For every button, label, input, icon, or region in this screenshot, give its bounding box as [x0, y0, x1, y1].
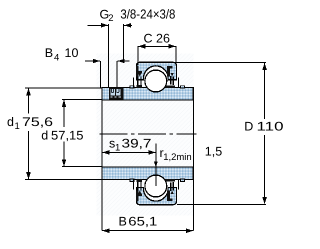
label D 110 — [244, 120, 283, 134]
seal left — [134, 66, 142, 88]
svg-text:65,1: 65,1 — [128, 214, 157, 228]
label B 65,1 — [119, 214, 158, 228]
dimension d1: vertical line with arrows — [26, 88, 31, 179]
svg-text:57,15: 57,15 — [51, 128, 84, 142]
dimension D: extension line bottom — [177, 203, 266, 205]
r leader centre line — [155, 144, 157, 187]
dimension G2: right arrow — [124, 23, 132, 28]
label B4 10 — [45, 46, 79, 63]
seal right — [166, 66, 179, 88]
dimension G2: extension line right — [123, 24, 125, 63]
svg-text:39,7: 39,7 — [122, 136, 152, 150]
svg-text:D: D — [244, 120, 253, 134]
dimension B: line with arrows — [102, 228, 193, 233]
dimension G2: left arrow — [88, 23, 109, 28]
svg-text:1,5: 1,5 — [205, 145, 222, 159]
dimension D: extension line top — [167, 62, 266, 64]
outer ring — [137, 62, 177, 79]
centerline (bearing axis, dash-dot) — [99, 133, 196, 135]
dimension d: vertical line with arrows — [62, 100, 67, 166]
dimension C: extension line right — [175, 46, 177, 62]
dimension d: extension line bottom — [62, 166, 102, 168]
r arrow (down, at bottom inner ring top edge) — [154, 162, 158, 168]
label s1 39,7 — [109, 136, 152, 153]
bearing cross-section top half — [102, 62, 193, 100]
dimension d: extension line top — [62, 99, 102, 101]
bore line right (inner ring right face / B extension) — [192, 88, 194, 231]
svg-text:B: B — [45, 46, 53, 60]
dimension C: extension line left — [137, 46, 139, 65]
dimension B4: extension line right (screw centre) — [116, 61, 118, 88]
dimension s1: line with arrows — [102, 150, 155, 155]
svg-text:3/8-24×3/8: 3/8-24×3/8 — [120, 6, 175, 21]
dimension B4: right arrow — [118, 59, 130, 64]
svg-text:B: B — [119, 214, 127, 228]
svg-text:10: 10 — [65, 46, 79, 60]
dimension B4: extension line left — [99, 61, 101, 88]
dimension C: line with arrows — [138, 44, 175, 49]
ball — [145, 70, 167, 92]
dimension d1: extension line top — [25, 87, 102, 89]
label d 57,15 — [41, 128, 83, 142]
faint hatched zone around bearing — [97, 54, 194, 216]
svg-text:4: 4 — [54, 52, 59, 63]
svg-text:75,6: 75,6 — [22, 115, 53, 129]
label d1 75,6 — [7, 115, 53, 132]
flinger seat step left — [130, 86, 134, 88]
svg-text:d: d — [7, 115, 14, 129]
svg-text:C 26: C 26 — [144, 32, 170, 46]
dimension D: vertical line with arrows — [262, 63, 267, 204]
flinger seat step right — [180, 86, 184, 88]
svg-text:1: 1 — [115, 142, 120, 153]
dimension B4: left arrow — [85, 59, 100, 64]
label r 1,2min — [160, 146, 192, 163]
dimension G2: extension line left — [108, 24, 110, 88]
svg-text:1: 1 — [15, 121, 20, 132]
svg-text:2: 2 — [108, 13, 113, 24]
set screw G2 in top inner ring — [109, 87, 124, 99]
svg-text:d: d — [41, 128, 48, 142]
label G2 3/8-24x3/8 — [100, 6, 176, 24]
svg-text:1,2min: 1,2min — [163, 152, 192, 163]
dimension d1: extension line bottom — [25, 179, 102, 181]
bearing cross-section bottom half (mirrored) — [102, 167, 193, 205]
bore line left (inner ring left face / B extension) — [101, 88, 103, 231]
inner ring — [102, 85, 193, 100]
svg-text:110: 110 — [257, 120, 284, 134]
